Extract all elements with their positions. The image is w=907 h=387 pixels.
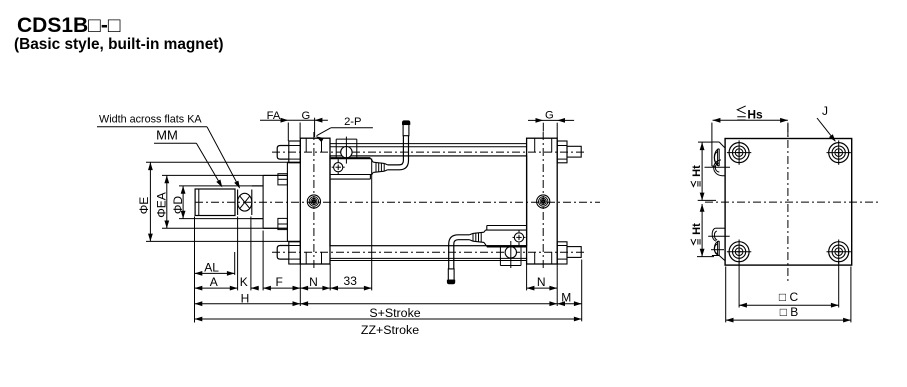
rear head counterbores [534,138,536,152]
dim C [738,262,740,308]
main center line [195,201,600,203]
front head counterbores [305,138,307,152]
svg-text:H: H [241,291,250,305]
cylinder tube [330,156,527,246]
svg-text:N: N [537,275,546,289]
piston rod [252,185,263,187]
svg-text:G: G [302,110,311,122]
dim Ht lower [697,256,714,258]
bottom tie rod [330,257,527,259]
front port [307,195,320,208]
front head plate [300,138,330,264]
auto switch bottom [447,226,526,284]
rear port [537,195,550,208]
svg-text:Width across flats KA: Width across flats KA [99,113,202,125]
svg-text:33: 33 [344,274,358,288]
extension lines [194,217,196,323]
front top tie rod nut [289,141,301,163]
svg-text:□ B: □ B [780,305,799,319]
svg-text:A: A [210,275,218,289]
wrench flats KA [237,190,239,216]
front bottom tie rod nut [289,242,301,264]
dim B [725,267,727,323]
top tie rod [330,143,527,145]
rear head plate [527,138,558,264]
rear top tie rod nut [557,141,567,163]
dim phi D [179,185,263,187]
auto switch top [331,121,410,179]
end view horizontal center line [705,201,878,203]
svg-text:□ C: □ C [779,290,799,304]
svg-text:S+Stroke: S+Stroke [369,306,420,320]
svg-text:ΦD: ΦD [171,196,185,215]
tie rod nut top-left [729,143,749,163]
front head center line [313,132,315,270]
cushion valve bottom [278,218,288,229]
switch profile top [705,123,731,176]
tie rod nut bottom-right [829,242,849,262]
cushion valve top [278,174,288,185]
svg-text:2-P: 2-P [344,116,361,128]
boss EA [262,175,264,228]
switch profile bottom [708,228,730,261]
top tie rod center line [272,151,585,153]
rear bottom tie rod nut [557,242,567,264]
piston rod thread MM [195,189,235,216]
svg-text:CDS1B□-□: CDS1B□-□ [17,14,121,37]
svg-text:MM: MM [156,128,178,143]
svg-text:F: F [276,275,283,289]
boss E [286,162,288,241]
svg-text:Hs: Hs [747,108,763,122]
svg-text:ΦE: ΦE [137,197,151,215]
svg-text:ΦEA: ΦEA [155,192,169,218]
tie rod nut bottom-left [729,242,749,262]
end view vertical center line [787,124,789,282]
dim phi EA [162,174,287,176]
svg-text:AL: AL [204,260,219,274]
bottom tie rod center line [272,251,585,253]
rear head center line [542,132,544,270]
svg-text:Ht: Ht [691,223,703,235]
svg-text:K: K [240,275,248,289]
svg-text:(Basic style, built-in magnet): (Basic style, built-in magnet) [14,36,224,53]
dim phi E [146,161,300,163]
svg-text:N: N [309,275,318,289]
svg-text:ZZ+Stroke: ZZ+Stroke [361,323,419,337]
svg-text:Ht: Ht [691,165,703,177]
dim Hs [713,119,788,121]
tie rod nut top-right [829,143,849,163]
dim Ht upper [698,141,713,143]
end view square [725,139,852,266]
dim ZZ+Stroke [195,318,582,320]
svg-text:G: G [545,110,554,122]
dim S+Stroke [300,303,557,305]
svg-text:J: J [822,104,828,118]
